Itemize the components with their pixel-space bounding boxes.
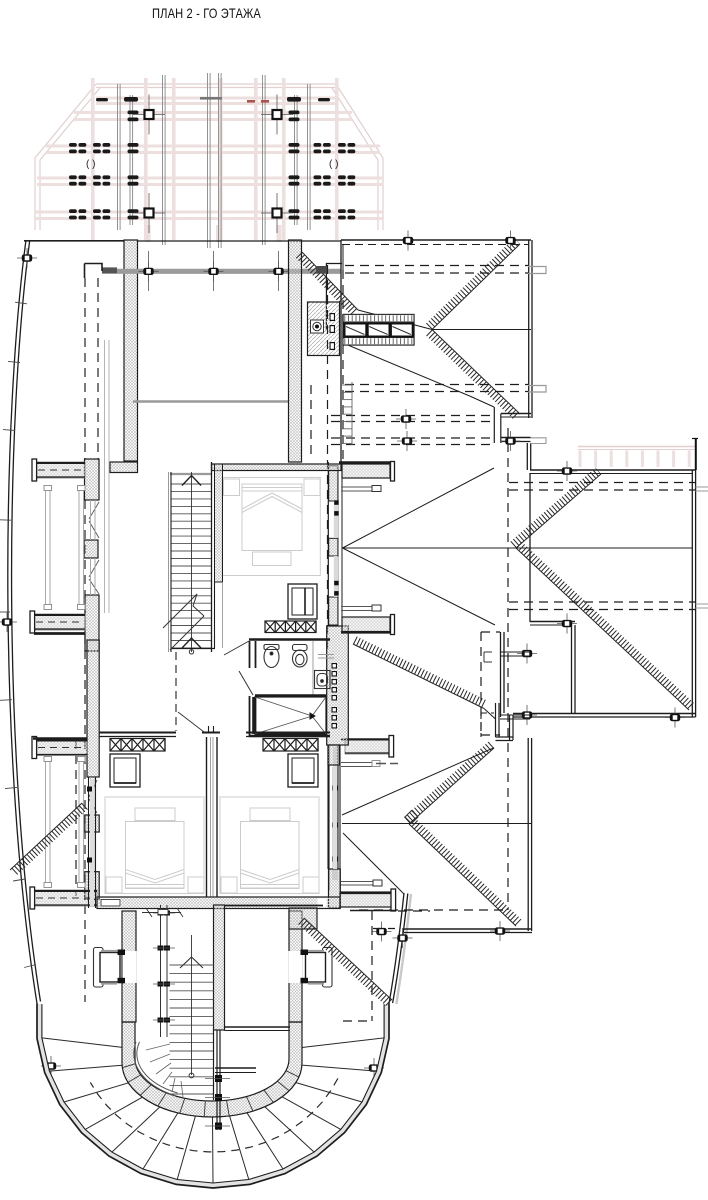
stair shaft wall right [214,905,225,1030]
bedroom wardrobes [110,754,140,787]
wall upper-left vertical [124,240,138,461]
step corner near stairs top [85,264,103,279]
lower right roof hatches [355,640,486,705]
stair winder curve [134,1042,176,1096]
beam dark block [316,266,328,274]
svg-text:ПЛАН 2 - ГО ЭТАЖА: ПЛАН 2 - ГО ЭТАЖА [152,5,261,21]
pergola outline [35,84,383,230]
upper roof ridge [432,329,531,331]
right roof outline [530,469,696,471]
door dimension marks [142,912,181,914]
bedroom1 lower right slab [342,617,390,632]
right curved wall [389,893,404,1004]
bedroom2 left wall [88,777,90,908]
right bedroom right wall [327,745,329,869]
svg-text:( ): ( ) [329,159,338,170]
pergola beams [35,78,383,242]
shower [254,696,327,736]
markers on curve [17,257,37,259]
bidet [264,645,279,668]
stairs break lines [163,594,204,650]
terrace roof hatch left [13,806,85,873]
wall right of central block [500,632,502,717]
courtyard ladder ticks [341,384,352,386]
towel rail [318,654,334,656]
corridor edge lines [104,340,106,613]
pergola rafters grey [118,73,311,248]
terrace roof hatch near right wall [301,921,389,1003]
spine shaft squares [332,663,338,669]
lower right markers [490,930,510,932]
shower niche edge [312,641,314,696]
central spine wide section [327,626,349,745]
terrace dashed arc [90,1078,338,1152]
curve tick marks [15,302,27,304]
wall mid-right vertical [289,240,302,462]
pink railing top right [578,446,696,448]
lower stair right edge [213,1030,215,1100]
right roof stubs [696,487,708,491]
stairs center line and arrows [191,472,193,652]
spine lower strip [332,767,338,880]
left lower wall [122,911,136,1022]
bathroom left wall [249,641,251,668]
bedroom divider wall bottom [97,897,340,909]
right roof fan lines [343,468,495,548]
bedroom top walls [99,732,176,734]
bedroom1 top wall [212,464,342,471]
pergola anchor plates [133,114,165,116]
bedroom radiators [110,739,165,752]
bathroom bottom wall [249,735,330,737]
left bay window [123,951,137,983]
washbasin [315,671,331,689]
upper roof hip hatches [429,241,517,327]
bedroom1 right slab [342,464,390,478]
room bottom right walls [224,905,323,907]
right bay window [289,951,303,983]
stairs upper flight [171,484,212,648]
terrace curved wall ring [122,1022,302,1117]
skylight [343,315,414,346]
central spine wall [327,462,329,626]
terrace stub wall bottom [216,1030,218,1130]
wall corner step [326,264,342,331]
grey beam y270 [102,269,341,274]
balcony slab 3 [36,740,88,756]
balcony slab 2 [34,614,85,630]
beds lower bedrooms [105,797,204,894]
upper roof valley hatch [299,255,355,313]
bathroom top wall [249,638,330,640]
bedroom2 door swing [178,712,204,732]
rails below right slab [341,762,372,764]
bedroom1 left wall [215,464,223,582]
wall footing block [110,462,138,473]
right slab at spine [345,739,390,755]
upper roof lower valley [343,343,470,396]
right curve grey shadow [396,894,411,1004]
terrace outer faceted edge [37,1004,389,1189]
lower stairs [170,965,214,1094]
left gallery piers [85,459,100,500]
pergola dark battens [69,97,355,219]
upper roof outline [341,239,531,241]
overhang stubs grey [528,267,546,274]
right lower wall [289,911,302,1022]
grey line y401 [133,400,289,403]
radiator bedroom1 [265,621,316,633]
right roof markers [557,470,577,472]
upper roof markers [398,240,418,242]
dashed lines left interior [84,278,86,459]
chimney block [308,302,340,356]
lower right dashed overhang [359,909,508,911]
winder treads [146,1044,170,1050]
svg-text:( ): ( ) [86,159,95,170]
center wall lower bedrooms [206,737,208,897]
tv cabinet bedroom1 [288,584,317,619]
terrace radial joints [302,1038,384,1048]
step stub grey [531,438,547,444]
clip at ridge wall end [333,823,338,828]
balcony slab 4 [34,890,97,906]
upper roof dashed overhang [345,265,528,267]
stair bottom edge [171,648,215,650]
pergola small red marks [247,100,255,103]
beam markers [148,251,150,291]
lower right roof outline [495,703,497,737]
right roof dashed overhang [509,482,695,484]
toilet [293,645,308,668]
lower right roof ridge and fans [342,823,531,825]
top edge line [24,240,124,242]
ring facet joints [286,1071,299,1077]
balcony slab 1 [36,462,85,478]
left gallery window zigzags [89,502,99,813]
right roof hip hatches [513,471,598,545]
dashed inner corner right [480,632,482,735]
left curved wall [8,240,37,1004]
dashed corridor line [175,652,177,731]
balcony rails vertical [46,486,84,886]
bed upper bedroom [222,478,320,576]
